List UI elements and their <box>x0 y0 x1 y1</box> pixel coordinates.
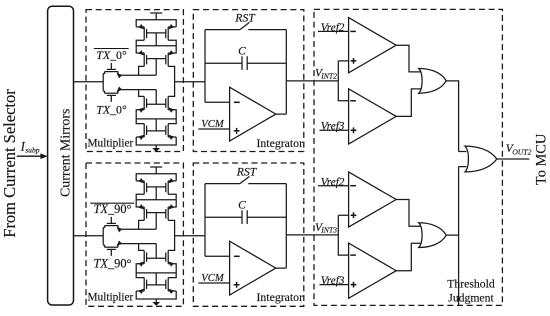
svg-text:Vref3: Vref3 <box>321 275 345 287</box>
svg-text:VCM: VCM <box>201 119 225 130</box>
svg-text:Vref2: Vref2 <box>321 177 345 189</box>
svg-text:OUT2: OUT2 <box>512 148 531 157</box>
svg-text:Current Mirrors: Current Mirrors <box>59 109 74 197</box>
svg-text:INT2: INT2 <box>320 71 337 80</box>
svg-text:TX_90°: TX_90° <box>93 202 131 216</box>
svg-text:INT3: INT3 <box>320 226 337 235</box>
svg-text:RST: RST <box>236 166 258 179</box>
svg-text:subp: subp <box>25 146 40 155</box>
svg-text:VCM: VCM <box>201 273 225 284</box>
svg-text:Threshold: Threshold <box>447 278 495 291</box>
svg-text:From Current Selector: From Current Selector <box>0 89 19 238</box>
svg-text:RST: RST <box>234 12 256 25</box>
svg-text:TX_0°: TX_0° <box>96 103 127 117</box>
svg-text:Integrator: Integrator <box>256 290 303 304</box>
svg-text:C: C <box>238 46 246 58</box>
svg-text:TX_0°: TX_0° <box>96 48 127 62</box>
svg-text:Integrator: Integrator <box>256 136 303 150</box>
svg-text:To MCU: To MCU <box>534 133 550 185</box>
svg-text:Judgment: Judgment <box>448 292 494 305</box>
svg-text:Vref3: Vref3 <box>321 121 345 133</box>
svg-text:Multiplier: Multiplier <box>88 291 134 303</box>
svg-text:Multiplier: Multiplier <box>88 137 134 149</box>
svg-text:C: C <box>238 200 246 212</box>
svg-text:TX_90°: TX_90° <box>93 257 131 271</box>
svg-text:Vref2: Vref2 <box>321 22 345 34</box>
